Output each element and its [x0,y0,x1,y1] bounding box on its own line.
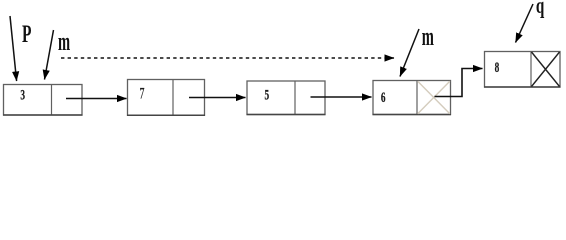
node N1 value label 3 [20,86,25,103]
node N3 box (value 5) [247,81,326,115]
pointer label q [536,0,545,19]
svg-text:3: 3 [20,86,25,103]
dashed traversal arrow from m to node N4 [61,57,394,59]
pointer arrow q [516,4,534,43]
node N5 null cross (dark) [532,52,560,87]
node N4 box (value 6) [373,81,452,115]
pointer arrow m (left) [45,30,54,80]
link arrow N4 to N5 (elbow) [435,69,483,97]
link arrow N1 to N2 [66,98,127,100]
node N4 null cross (light) [418,81,450,114]
link arrow N2 to N3 [189,97,246,99]
pointer label P [22,20,32,48]
node N1 box (value 3) [3,85,83,116]
svg-text:8: 8 [495,59,500,76]
svg-text:6: 6 [381,89,386,106]
pointer arrow P [10,16,17,81]
svg-text:m: m [58,27,70,57]
node N4 value label 6 [381,89,386,106]
pointer label m (right) [422,21,434,51]
node N5 value label 8 [495,59,500,76]
node N5 box (value 8) [484,52,561,88]
svg-text:7: 7 [140,84,145,102]
node N2 box (value 7) [127,80,205,116]
svg-text:q: q [536,0,545,19]
svg-text:P: P [22,20,32,48]
svg-text:5: 5 [265,86,270,103]
link arrow N3 to N4 [311,96,372,98]
pointer arrow m (right) [400,29,419,77]
svg-text:m: m [422,21,434,51]
node N3 value label 5 [265,86,270,103]
node N2 value label 7 [140,84,145,102]
pointer label m (left) [58,27,70,57]
